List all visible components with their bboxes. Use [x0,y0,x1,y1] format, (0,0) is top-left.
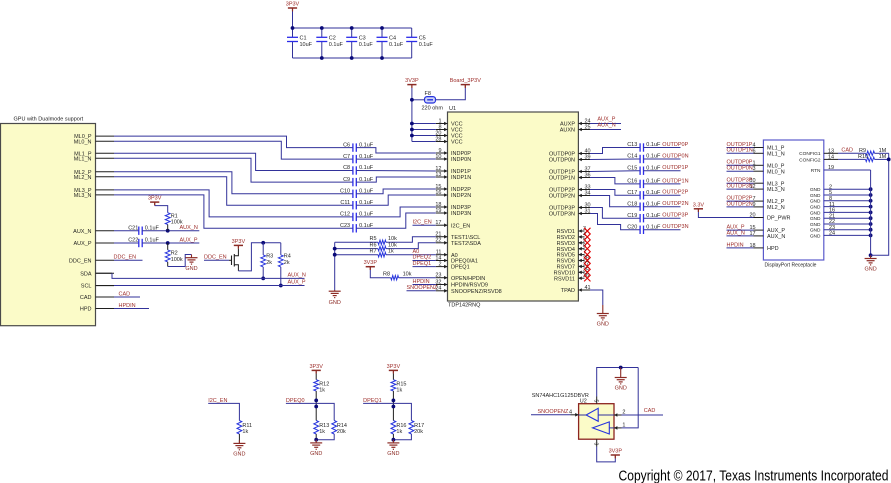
svg-text:10k: 10k [388,236,397,242]
svg-text:OUTDP0P: OUTDP0P [662,142,688,148]
svg-text:5: 5 [592,400,598,403]
svg-text:R5: R5 [369,236,376,242]
svg-text:C8: C8 [343,165,350,171]
svg-text:GND: GND [810,193,821,199]
svg-text:AUX_N: AUX_N [597,122,615,128]
svg-text:10k: 10k [388,242,397,248]
svg-text:CONFIG1: CONFIG1 [799,151,821,157]
svg-text:0.1uF: 0.1uF [359,42,374,48]
svg-text:DisplayPort Receptacle: DisplayPort Receptacle [765,262,817,268]
svg-text:AUXN: AUXN [560,128,575,134]
svg-text:DPEQ1: DPEQ1 [413,261,432,267]
svg-text:I2C_EN: I2C_EN [451,223,470,229]
svg-text:C19: C19 [627,213,637,219]
svg-text:TEST2\SDA: TEST2\SDA [451,241,481,247]
svg-text:INDP3N: INDP3N [451,211,471,217]
svg-text:R16: R16 [396,423,406,429]
svg-text:U2: U2 [580,398,587,404]
svg-text:F8: F8 [425,91,431,97]
svg-text:C11: C11 [340,200,350,206]
svg-text:31: 31 [585,208,591,214]
svg-text:20k: 20k [414,429,423,435]
svg-text:R2: R2 [171,251,178,257]
svg-text:OUTDP2N: OUTDP2N [549,194,575,200]
svg-text:GPU with Dualmode support: GPU with Dualmode support [14,117,84,123]
svg-text:R15: R15 [396,381,406,387]
svg-text:4: 4 [569,409,572,415]
svg-text:28: 28 [435,136,441,142]
svg-text:41: 41 [585,285,591,291]
svg-text:1k: 1k [388,249,394,255]
svg-text:HPDIN/RSVD9: HPDIN/RSVD9 [451,283,488,289]
svg-text:3P3V: 3P3V [387,364,401,370]
svg-text:2k: 2k [266,260,272,266]
svg-text:HPDIN: HPDIN [727,242,744,248]
svg-text:OUTDP2N: OUTDP2N [662,201,688,207]
svg-text:25: 25 [585,124,591,130]
svg-text:17: 17 [435,220,441,226]
svg-text:14: 14 [828,154,834,160]
svg-text:OPEN/HPDIN: OPEN/HPDIN [451,276,485,282]
svg-text:DPEQ1: DPEQ1 [451,265,470,271]
svg-text:SNOOPENZ/RSVD8: SNOOPENZ/RSVD8 [451,289,502,295]
svg-text:GND: GND [810,210,821,216]
svg-text:R10: R10 [858,154,868,160]
svg-text:220 ohm: 220 ohm [422,106,444,112]
svg-text:VCC: VCC [451,140,463,146]
svg-text:3.3V: 3.3V [693,202,705,208]
svg-text:AUX_N: AUX_N [727,230,745,236]
svg-text:GND: GND [810,205,821,211]
svg-text:SCL: SCL [81,284,92,290]
svg-text:13: 13 [828,148,834,154]
svg-text:16: 16 [435,190,441,196]
svg-text:DPEQ2: DPEQ2 [413,255,432,261]
svg-text:3P3V: 3P3V [232,239,246,245]
svg-text:R1: R1 [171,213,178,219]
svg-text:AUX_N: AUX_N [767,234,785,240]
svg-text:Copyright © 2017, Texas Instru: Copyright © 2017, Texas Instruments Inco… [619,468,889,483]
svg-text:AUX_N: AUX_N [288,273,306,279]
svg-text:ML0_N: ML0_N [74,139,92,145]
svg-text:TDP142RNQ: TDP142RNQ [448,303,481,309]
svg-text:INDP0N: INDP0N [451,157,471,163]
svg-text:C5: C5 [419,36,426,42]
svg-text:C4: C4 [389,36,396,42]
svg-text:DDC_EN: DDC_EN [69,258,92,264]
svg-text:23: 23 [435,273,441,279]
svg-text:CAD: CAD [80,295,92,301]
svg-text:OUTDP1N: OUTDP1N [662,178,688,184]
svg-text:GND: GND [615,386,627,392]
svg-text:0.1uF: 0.1uF [389,42,404,48]
svg-text:RSVD11: RSVD11 [554,276,575,282]
svg-text:R8: R8 [383,272,390,278]
svg-text:R7: R7 [369,249,376,255]
svg-text:OUTDP0N: OUTDP0N [549,158,575,164]
svg-text:13: 13 [435,172,441,178]
svg-text:R4: R4 [284,254,291,260]
svg-text:C6: C6 [343,142,350,148]
svg-text:0.1uF: 0.1uF [419,42,434,48]
svg-text:3V3P: 3V3P [405,78,419,84]
svg-text:C12: C12 [340,212,350,218]
svg-text:R6: R6 [369,242,376,248]
svg-text:GND: GND [597,322,609,328]
svg-text:AUX_P: AUX_P [180,237,198,243]
svg-text:C23: C23 [340,223,350,229]
svg-text:3P3V: 3P3V [309,364,323,370]
svg-text:AUX_P: AUX_P [288,279,306,285]
svg-text:3P3V: 3P3V [286,2,300,8]
svg-text:24: 24 [829,231,835,237]
svg-text:OUTDP1N: OUTDP1N [727,148,753,154]
svg-text:C13: C13 [627,142,637,148]
svg-text:R11: R11 [242,423,252,429]
svg-text:2: 2 [438,261,441,267]
svg-text:1k: 1k [319,429,325,435]
svg-text:39: 39 [585,154,591,160]
svg-text:20k: 20k [337,429,346,435]
svg-text:34: 34 [585,190,591,196]
svg-text:3V3P: 3V3P [364,260,378,266]
svg-text:100k: 100k [171,220,183,226]
svg-text:OUTDP1N: OUTDP1N [549,176,575,182]
svg-text:C22: C22 [128,238,138,244]
svg-text:C16: C16 [627,179,637,185]
svg-text:OUTDP3N: OUTDP3N [662,224,688,230]
svg-text:OUTDP0N: OUTDP0N [727,166,753,172]
svg-text:21: 21 [435,232,441,238]
svg-text:CONFIG2: CONFIG2 [799,157,821,163]
svg-text:ML2_N: ML2_N [74,175,92,181]
svg-text:U1: U1 [449,106,456,112]
svg-text:C9: C9 [343,177,350,183]
svg-text:HPD: HPD [767,246,779,252]
svg-text:ML0_N: ML0_N [767,169,785,175]
svg-text:C18: C18 [627,201,637,207]
svg-text:OUTDP2P: OUTDP2P [662,190,688,196]
svg-text:GND: GND [810,233,821,239]
svg-text:HPDIN: HPDIN [119,303,136,309]
svg-text:C20: C20 [627,225,637,231]
svg-text:2k: 2k [284,260,290,266]
svg-text:10k: 10k [403,272,412,278]
svg-text:3: 3 [592,443,598,446]
svg-text:R9: R9 [859,148,866,154]
svg-text:AUX_N: AUX_N [180,225,198,231]
svg-text:OUTDP3N: OUTDP3N [549,212,575,218]
svg-text:C7: C7 [343,154,350,160]
svg-text:GND: GND [864,267,876,273]
svg-text:100k: 100k [171,257,183,263]
svg-text:GND: GND [387,451,399,457]
svg-text:1k: 1k [396,388,402,394]
svg-text:SDA: SDA [80,271,92,277]
svg-text:GND: GND [810,199,821,205]
svg-text:ML2_N: ML2_N [767,205,785,211]
svg-text:ML3_N: ML3_N [74,193,92,199]
svg-text:ML1_N: ML1_N [74,156,92,162]
svg-text:ML3_N: ML3_N [767,187,785,193]
svg-text:C14: C14 [627,154,637,160]
svg-text:AUX_N: AUX_N [73,229,91,235]
svg-text:DPEQ0/A1: DPEQ0/A1 [451,259,478,265]
svg-text:10: 10 [435,154,441,160]
svg-text:GND: GND [310,451,322,457]
svg-text:GND: GND [185,266,197,272]
svg-text:AUX_P: AUX_P [73,241,91,247]
svg-text:OUTDP1P: OUTDP1P [662,165,688,171]
svg-text:ML1_N: ML1_N [767,151,785,157]
svg-text:1k: 1k [396,429,402,435]
svg-text:R17: R17 [414,423,424,429]
svg-text:C2: C2 [329,36,336,42]
svg-text:C17: C17 [627,190,637,196]
svg-text:3V3P: 3V3P [609,449,623,455]
svg-text:OUTDP3N: OUTDP3N [727,184,753,190]
svg-text:GND: GND [810,228,821,234]
svg-text:C3: C3 [359,36,366,42]
svg-text:INDP1N: INDP1N [451,175,471,181]
svg-text:1k: 1k [319,388,325,394]
svg-text:TPAD: TPAD [561,288,575,294]
svg-text:CAD: CAD [644,408,656,414]
svg-text:GND: GND [329,300,341,306]
svg-text:OUTDP0N: OUTDP0N [662,153,688,159]
svg-text:Board_3P3V: Board_3P3V [450,78,482,84]
svg-text:OUTDP3P: OUTDP3P [662,213,688,219]
svg-text:C21: C21 [128,225,138,231]
svg-text:19: 19 [828,165,834,171]
svg-text:14: 14 [435,255,441,261]
svg-text:GND: GND [810,222,821,228]
svg-text:10uF: 10uF [300,42,313,48]
svg-text:DP_PWR: DP_PWR [767,216,791,222]
svg-text:R13: R13 [319,423,329,429]
svg-text:TEST1\SCL: TEST1\SCL [451,235,480,241]
svg-text:HPD: HPD [80,307,92,313]
svg-text:I2C_EN: I2C_EN [413,219,432,225]
svg-text:SNOOPENZ: SNOOPENZ [538,409,570,415]
svg-text:36: 36 [585,172,591,178]
svg-text:R3: R3 [266,254,273,260]
svg-text:22: 22 [435,238,441,244]
svg-text:R12: R12 [319,381,329,387]
svg-text:3P3V: 3P3V [148,196,162,202]
svg-text:C1: C1 [300,36,307,42]
svg-text:RTN: RTN [811,168,821,174]
svg-text:GND: GND [810,216,821,222]
svg-text:C10: C10 [340,189,350,195]
svg-text:1k: 1k [242,429,248,435]
svg-text:R14: R14 [337,423,347,429]
svg-text:INDP2N: INDP2N [451,193,471,199]
svg-text:GND: GND [233,452,245,458]
svg-text:GND: GND [810,187,821,193]
svg-text:OUTDP2N: OUTDP2N [727,201,753,207]
svg-text:19: 19 [435,208,441,214]
svg-text:CAD: CAD [119,291,131,297]
svg-text:0.1uF: 0.1uF [329,42,344,48]
svg-text:C15: C15 [627,165,637,171]
